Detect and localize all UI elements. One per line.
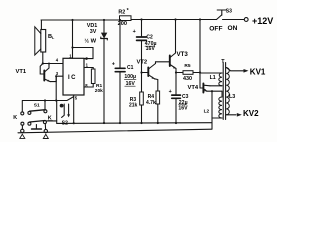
junction dot rail at C2 — [140, 18, 142, 20]
junction dot rail at branch — [199, 18, 201, 20]
wire speaker to node A — [42, 52, 44, 64]
output KV1 — [226, 67, 266, 76]
junction dot bus at pin3 drop — [55, 99, 57, 101]
wire node to L1 top — [200, 72, 222, 74]
junction dot ground at R3 — [140, 122, 142, 124]
wire IC supply from rail — [72, 20, 74, 48]
node VT2 base junction dot — [140, 71, 142, 73]
junction dot ground at C1 — [119, 122, 121, 124]
svg-text:21k: 21k — [129, 102, 138, 108]
junction dot VT1 collector on pin-4 wire — [48, 63, 50, 65]
wire node A to IC pin 4 — [43, 63, 63, 65]
svg-text:L2: L2 — [204, 109, 210, 115]
svg-text:ON: ON — [228, 25, 238, 32]
wire 12V branch down to VT4 stage — [199, 20, 201, 89]
wire S1 left column to lower terminal — [21, 125, 23, 129]
terminal +12V — [244, 16, 273, 26]
junction dot ground at C3 — [175, 122, 177, 124]
svg-text:4.7k: 4.7k — [146, 100, 156, 106]
wire S1 pole2 to S2 — [46, 120, 56, 122]
wire pin 3 lead — [56, 75, 63, 77]
transistor VT3 — [170, 51, 189, 69]
svg-text:R2: R2 — [118, 10, 125, 16]
wire VT1 base feed — [40, 64, 44, 75]
junction dot pin1/pin2 split — [71, 46, 73, 48]
terminal socket right — [43, 129, 48, 138]
junction dot ground rail left end — [73, 122, 75, 124]
wire speaker drop from rail — [40, 20, 42, 30]
wire VT1 emitter to pin 3 node — [50, 76, 56, 81]
svg-text:3V: 3V — [90, 29, 97, 35]
switch S1 pole 1 — [21, 101, 47, 115]
svg-text:T: T — [221, 59, 225, 65]
pin label 1 (right) — [86, 63, 89, 68]
resistor R3 — [129, 73, 143, 124]
svg-text:+: + — [133, 29, 136, 35]
svg-text:S2: S2 — [62, 121, 68, 127]
switch S3 — [209, 9, 237, 33]
svg-text:*: * — [127, 8, 130, 14]
wire lower return rail — [18, 129, 212, 133]
svg-text:C1: C1 — [127, 65, 134, 71]
resistor R2 — [118, 8, 131, 27]
zener diode VD1 — [84, 20, 107, 123]
wire VT3 collector to rail — [175, 20, 177, 54]
speaker B — [35, 27, 55, 55]
junction dot rail at IC feed — [71, 19, 73, 21]
transformer T primary winding L2 — [204, 91, 222, 118]
wire VT4 emitter / L2 top lead — [207, 90, 222, 92]
svg-text:K: K — [13, 115, 17, 121]
junction dot rail at VD1 — [103, 19, 105, 21]
junction dot emitter bus — [211, 90, 213, 92]
junction dot ground at VD1 — [103, 122, 105, 124]
pin label 8 — [85, 83, 88, 88]
svg-text:+: + — [169, 89, 172, 95]
svg-text:½ W: ½ W — [84, 37, 96, 44]
wire IC pin 5 lead down — [73, 95, 75, 123]
wire pin 1 lead — [72, 48, 74, 59]
pin label 5 — [75, 96, 78, 101]
wire pin3 node down to S1/S2 bus — [55, 76, 57, 100]
svg-text:L1: L1 — [210, 75, 216, 81]
wire top rail right segment (12V side) — [131, 19, 217, 21]
svg-text:20k: 20k — [95, 88, 103, 94]
transformer T primary winding L1 — [210, 73, 222, 86]
svg-text:IC: IC — [68, 75, 77, 81]
pin label 1 (top) — [69, 54, 72, 59]
switch S1 actuator — [32, 125, 42, 129]
svg-text:VT3: VT3 — [177, 51, 189, 58]
svg-text:4: 4 — [56, 58, 59, 63]
svg-text:16V: 16V — [146, 46, 156, 52]
node A junction dot — [42, 62, 44, 64]
output KV2 — [226, 109, 259, 118]
terminal socket left — [20, 129, 25, 138]
svg-text:L3: L3 — [229, 94, 235, 100]
wire S1/S2 top bus — [23, 97, 74, 101]
node VT3 emitter junction dot — [175, 71, 177, 73]
switch S1 pole 2 — [13, 115, 52, 125]
wire pin 2 lead — [73, 48, 94, 59]
svg-text:1: 1 — [86, 63, 89, 68]
transistor VT1 — [16, 64, 51, 82]
svg-text:3: 3 — [56, 71, 59, 76]
capacitor C2 — [133, 20, 157, 73]
junction dot rail at C1 — [119, 19, 121, 21]
svg-text:C2: C2 — [146, 35, 153, 41]
wire S3 to +12V terminal — [223, 19, 245, 21]
svg-text:16V: 16V — [178, 105, 188, 111]
svg-text:KV2: KV2 — [243, 109, 259, 118]
transformer T core — [221, 59, 225, 120]
capacitor C3 — [169, 73, 189, 124]
resistor R5 — [176, 63, 200, 82]
wire VT3 emitter node — [175, 69, 177, 73]
capacitor C1 — [112, 20, 136, 123]
junction dot bus at S1 right column — [44, 99, 46, 101]
svg-text:S1: S1 — [34, 102, 40, 108]
wire S1 right column to lower terminal — [44, 124, 46, 130]
svg-text:5: 5 — [75, 96, 78, 101]
svg-text:VT1: VT1 — [16, 69, 27, 75]
pin label 2 — [85, 56, 88, 61]
wire VT2 base — [142, 72, 149, 74]
wire L2 bottom lead — [212, 117, 222, 119]
junction dot rail at VT3 — [174, 18, 176, 20]
wire VT2 emitter to R4 — [155, 79, 158, 91]
svg-text:VT2: VT2 — [137, 59, 148, 65]
svg-text:OFF: OFF — [209, 26, 222, 33]
wire pin 1(right) lead to R1 — [84, 68, 93, 70]
vibration sensor S2 — [57, 101, 70, 127]
resistor R1 — [91, 69, 103, 94]
transistor VT2 — [137, 59, 156, 78]
svg-text:R5: R5 — [184, 63, 190, 69]
ground rail — [57, 122, 212, 125]
svg-text:+: + — [112, 62, 115, 68]
svg-text:KV1: KV1 — [250, 67, 266, 76]
wire VT2 collector to VT3 base — [156, 62, 170, 64]
transistor VT4 — [188, 84, 211, 93]
wire top rail left segment (3V side) — [41, 19, 119, 21]
svg-text:S3: S3 — [226, 9, 232, 15]
svg-text:+12V: +12V — [252, 16, 273, 26]
transformer T secondary winding L3 — [226, 68, 235, 115]
wire pin 8 lead — [84, 84, 93, 88]
resistor R4 — [146, 91, 160, 123]
svg-text:VT4: VT4 — [188, 85, 199, 91]
node pin3 junction dot — [55, 75, 57, 77]
pin label 4 — [56, 58, 59, 63]
svg-text:430: 430 — [183, 76, 192, 82]
node R5/L1 junction dot — [199, 71, 201, 73]
pin label 3 — [56, 71, 59, 76]
svg-text:200: 200 — [118, 21, 127, 27]
junction dot ground at R4 — [157, 122, 159, 124]
wire VT4 collector to L1 bottom — [210, 85, 222, 87]
IC box — [63, 58, 84, 95]
svg-text:BL: BL — [48, 34, 55, 40]
wire return column down — [211, 91, 213, 129]
